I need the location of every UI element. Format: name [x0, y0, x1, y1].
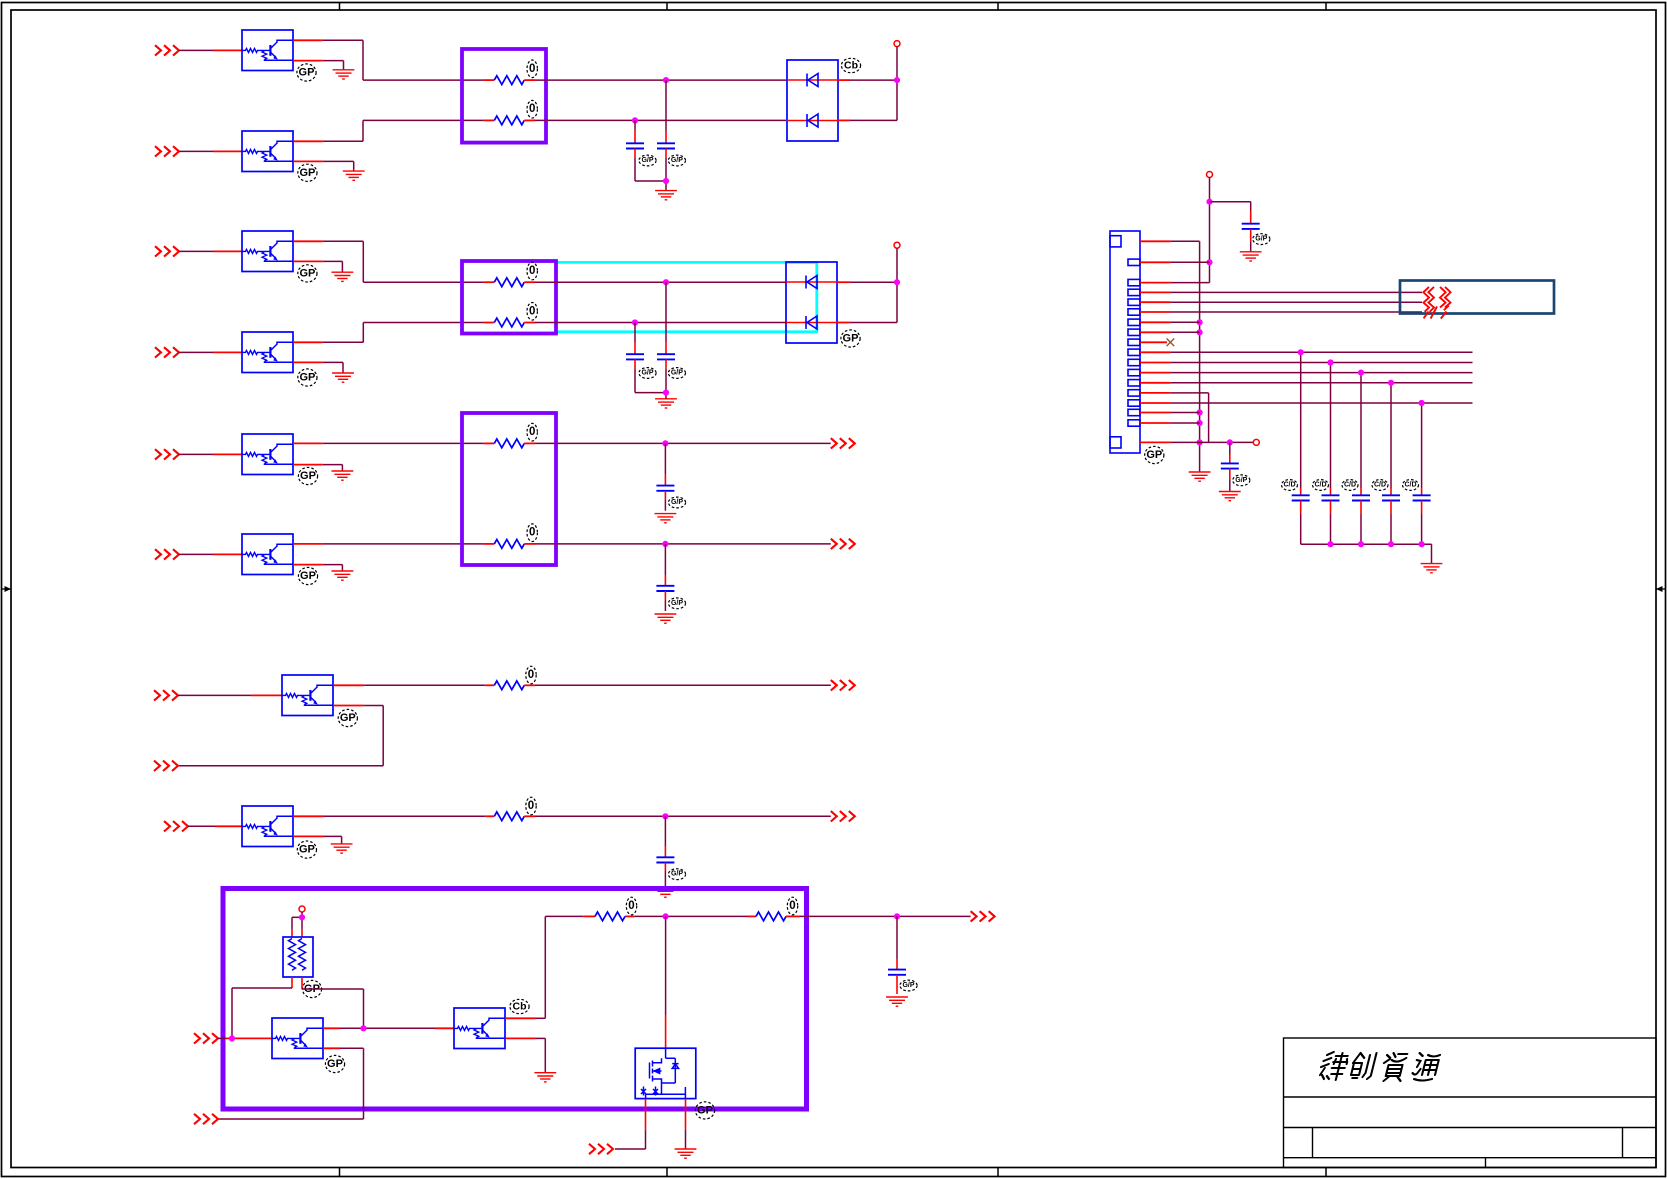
- wire VCC1 to D1 pins: [896, 47, 898, 121]
- transistor Q9: [272, 1018, 323, 1059]
- border mid arrows: [2, 586, 1666, 592]
- node junction at Q9 base: [229, 1035, 235, 1041]
- svg-text:G/P: G/P: [1235, 477, 1247, 484]
- svg-text:GP: GP: [1146, 449, 1162, 461]
- wire IN10 to Q9 base: [218, 1037, 226, 1039]
- node junction at D1 cathode: [894, 77, 900, 83]
- input port arrow IN9: [164, 821, 188, 831]
- terminal open circle P2: [1253, 439, 1259, 445]
- node junction on net A3: [662, 440, 668, 446]
- mosfet M1 block: [635, 1048, 696, 1099]
- wire Q10 collector up to R3 row: [505, 1017, 536, 1019]
- transistor Q7: [282, 675, 333, 716]
- wire Q10 emitter to ground: [505, 1037, 536, 1039]
- wire pin8 to bus: [1171, 331, 1200, 333]
- node junction cap column x1421: [1419, 400, 1425, 406]
- node junction at Q9 collector: [360, 1025, 366, 1031]
- node junction cap common 1: [663, 178, 669, 184]
- label GP for Q8: [297, 841, 316, 858]
- node junction bus pin18: [1197, 439, 1203, 445]
- resistor pack RP2 box: [462, 261, 556, 334]
- resistor RP1-B: [484, 119, 495, 121]
- node junction on net B3: [662, 541, 668, 547]
- ground at Q5 emitter: [332, 471, 354, 480]
- label GP for Q3: [298, 265, 317, 282]
- ground below C8: [886, 997, 908, 1006]
- input port arrow IN4: [155, 347, 179, 357]
- wire Q1 emitter to ground: [293, 60, 323, 62]
- label GP for Q5: [298, 467, 317, 484]
- transistor Q2: [242, 131, 293, 172]
- output port arrow OUT4: [831, 811, 855, 821]
- transistor Q10: [454, 1008, 505, 1049]
- wire R4 to output OUT5: [800, 915, 971, 917]
- label G/P for C9: [1253, 234, 1270, 245]
- label GP for RP4: [302, 980, 321, 997]
- wire RP3-A to output: [535, 442, 831, 444]
- label 0 for RP1-B: [527, 100, 537, 118]
- wire pin16 to bus: [1171, 412, 1200, 414]
- label G/P for C4: [668, 368, 685, 379]
- svg-text:C/D: C/D: [1283, 482, 1295, 489]
- node junction at D2 cathode: [894, 279, 900, 285]
- node junction bus pin17: [1197, 420, 1203, 426]
- wire Q4 collector to RP2 pin2: [293, 341, 323, 343]
- input port arrow IN3: [155, 246, 179, 256]
- svg-text:0: 0: [529, 426, 535, 438]
- function block box (purple): [223, 889, 807, 1110]
- wire IN5 to Q5 base: [179, 453, 213, 455]
- wire cap common to ground 1: [635, 180, 666, 182]
- label G/P for C1: [639, 155, 656, 166]
- wire VCC4 vertical to pin3: [1209, 178, 1211, 283]
- wire Q1 collector to RP1 pin1: [293, 39, 323, 41]
- resistor RP1-A: [484, 79, 495, 81]
- highlight cyan net box: [556, 262, 818, 331]
- capacitor C4: [665, 282, 667, 342]
- wire R1 to output: [524, 684, 535, 686]
- power terminal VCC4: [1207, 172, 1213, 178]
- output port arrow OUT2: [831, 539, 855, 549]
- svg-text:0: 0: [529, 103, 535, 115]
- wire Q6 collector to RP3 pin2: [293, 543, 323, 545]
- wire pin12 long: [1171, 372, 1473, 374]
- EMI filter FB1 box: [1400, 281, 1554, 314]
- svg-text:Cb: Cb: [844, 60, 858, 72]
- svg-text:GP: GP: [300, 570, 316, 582]
- label GP for Q6: [298, 567, 317, 584]
- svg-text:0: 0: [529, 527, 535, 539]
- label Cb for D1: [841, 58, 860, 72]
- capacitor C3: [634, 323, 636, 343]
- capacitor C8: [896, 916, 898, 959]
- wire RP4 left to Q9 base node: [291, 977, 293, 988]
- label C/D for C15: [1403, 480, 1419, 491]
- svg-text:G/P: G/P: [671, 370, 683, 377]
- node junction on net A2: [663, 279, 669, 285]
- wire RP4 right to Q9 collector node: [301, 977, 303, 989]
- transistor Q1: [242, 30, 293, 71]
- svg-text:Cb: Cb: [513, 1001, 527, 1013]
- transistor Q6: [242, 534, 293, 575]
- ground bus vertical: [1199, 241, 1201, 472]
- ground below C3 C4: [655, 399, 677, 408]
- transistor Q8: [242, 806, 293, 847]
- label G/P for C7: [668, 869, 685, 880]
- capacitor C15: [1413, 495, 1431, 500]
- svg-text:GP: GP: [299, 67, 315, 79]
- resistor R2: [494, 812, 524, 821]
- wire IN2 to Q2 base: [179, 150, 213, 152]
- node junction on net A1: [663, 77, 669, 83]
- ground at Q10 emitter: [534, 1073, 556, 1082]
- svg-text:C/D: C/D: [1344, 482, 1356, 489]
- wire Q5 collector to RP3 pin1: [293, 442, 323, 444]
- transistor Q3: [242, 231, 293, 272]
- wire Q6 emitter to ground: [293, 564, 323, 566]
- wire Q8 collector to R2: [293, 815, 324, 817]
- node junction cap column x1361: [1358, 370, 1364, 376]
- no-connect X on pin9: [1167, 339, 1175, 347]
- input port arrow IN7: [154, 690, 178, 700]
- resistor RP3-B: [484, 543, 495, 545]
- label C/D for C13: [1342, 480, 1358, 491]
- label C/D for C11: [1282, 480, 1298, 491]
- node junction cap common 2: [663, 390, 669, 396]
- svg-text:0: 0: [529, 305, 535, 317]
- wire R2 to output: [524, 815, 535, 817]
- capacitor C11: [1292, 495, 1310, 500]
- svg-text:G/P: G/P: [671, 499, 683, 506]
- ground below C5: [655, 514, 677, 523]
- wire pin2 to VCC4: [1171, 261, 1210, 263]
- ground below C7: [655, 888, 677, 897]
- wire pin1 to bus: [1171, 240, 1200, 242]
- label C/D for C14: [1372, 480, 1388, 491]
- filter caps common rail: [1301, 543, 1432, 545]
- label G/P for C2: [668, 155, 685, 166]
- wire Q9 collector to Q10 base: [323, 1027, 340, 1029]
- capacitor C14: [1382, 495, 1400, 500]
- output port arrow OUT5: [971, 911, 995, 921]
- ground below C1 C2: [655, 191, 677, 200]
- label G/P for C5: [668, 497, 685, 508]
- wire Q2 collector to RP1 pin2: [293, 140, 323, 142]
- capacitor C9: [1242, 224, 1260, 229]
- wire IN6 to Q6 base: [179, 553, 213, 555]
- output port arrow OUT3: [831, 680, 855, 690]
- wire Q2 emitter to ground: [293, 160, 323, 162]
- five filter capacitors group wires: [1300, 352, 1302, 488]
- connector J1 pin stubs: [1140, 241, 1171, 442]
- wire VCC4 branch to C9: [1210, 201, 1251, 203]
- label Cb for Q10: [510, 999, 529, 1013]
- capacitor C2: [665, 80, 667, 131]
- resistor pack RP1 box: [462, 49, 546, 143]
- wire pin10 long: [1171, 351, 1473, 353]
- capacitor C12: [1322, 495, 1340, 500]
- node junction rail: [1358, 541, 1364, 547]
- svg-text:0: 0: [529, 63, 535, 75]
- svg-text:C/D: C/D: [1374, 482, 1386, 489]
- wire Q7 collector to R1: [333, 684, 364, 686]
- input port arrow IN5: [155, 449, 179, 459]
- resistor R4: [747, 915, 756, 917]
- ground below M1: [675, 1149, 697, 1158]
- node junction rail: [1388, 541, 1394, 547]
- wire Q7 emitter to IN8: [333, 705, 364, 707]
- node junction below VCC3: [299, 914, 305, 920]
- label GP for D2: [841, 330, 860, 347]
- wire Q5 emitter to ground: [293, 464, 323, 466]
- capacitor C7: [664, 816, 666, 846]
- resistor pack RP3 box: [462, 413, 556, 565]
- dual diode D2: [786, 262, 837, 343]
- wire pin6 to filter FB1: [1171, 311, 1422, 313]
- wire pin11 long: [1171, 362, 1473, 364]
- ground at Q1 emitter: [333, 70, 355, 79]
- border zone ticks: [340, 3, 1327, 1177]
- power terminal VCC1: [894, 41, 900, 47]
- wire pin14 to pin18 net: [1171, 392, 1209, 394]
- wire RP3-B to output: [535, 543, 831, 545]
- svg-text:G/P: G/P: [671, 157, 683, 164]
- power terminal VCC3: [299, 906, 305, 912]
- wire Q4 emitter to ground: [293, 361, 323, 363]
- capacitor C5: [664, 443, 666, 474]
- label GP for Q7: [338, 709, 357, 726]
- label 0 for R3: [626, 897, 636, 915]
- wire pin3 to VCC4: [1171, 282, 1210, 284]
- transistor Q5: [242, 434, 293, 475]
- output port arrow OUT1: [831, 438, 855, 448]
- svg-text:0: 0: [628, 900, 634, 912]
- wire M1 pin to ground: [685, 1099, 687, 1130]
- svg-text:0: 0: [528, 669, 534, 681]
- svg-text:G/P: G/P: [1255, 236, 1267, 243]
- label GP for J1: [1145, 446, 1164, 463]
- label G/P for C3: [639, 368, 656, 379]
- wire pin18 to terminal: [1171, 441, 1254, 443]
- connector J1 body: [1110, 231, 1140, 453]
- node junction bus pin7: [1197, 319, 1203, 325]
- node junction bus pin16: [1197, 409, 1203, 415]
- wire RP2-B to diode D2 lower: [535, 322, 786, 324]
- wire pin4 to filter FB1: [1171, 291, 1422, 293]
- label G/P for C6: [668, 598, 685, 609]
- wire RP1-A to diode D1 upper: [535, 79, 787, 81]
- label 0 for RP2-B: [527, 303, 537, 321]
- svg-text:GP: GP: [299, 844, 315, 856]
- label GP for Q4: [298, 369, 317, 386]
- wire IN4 to Q4 base: [179, 351, 213, 353]
- input port arrow IN2: [155, 146, 179, 156]
- label 0 for R4: [787, 897, 797, 915]
- svg-text:G/P: G/P: [641, 157, 653, 164]
- resistor RP3-A: [484, 442, 495, 444]
- node junction rail: [1419, 541, 1425, 547]
- resistor pack RP4 (vertical pair): [283, 937, 313, 977]
- wire IN3 to Q3 base: [179, 250, 213, 252]
- svg-text:GP: GP: [697, 1104, 713, 1116]
- wire pin5 to filter FB1: [1171, 301, 1422, 303]
- svg-text:GP: GP: [300, 470, 316, 482]
- capacitor C6: [664, 544, 666, 575]
- wire Q3 emitter to ground: [293, 260, 323, 262]
- resistor RP2-A: [483, 281, 494, 283]
- wire Q3 collector to RP2 pin1: [293, 240, 323, 242]
- node junction bus pin8: [1197, 329, 1203, 335]
- label G/P for C10: [1233, 475, 1250, 486]
- wire R3 to R4: [634, 915, 747, 917]
- svg-text:GP: GP: [843, 333, 859, 345]
- svg-text:G/P: G/P: [641, 370, 653, 377]
- EMI filter FB1 element symbols: [1423, 287, 1450, 319]
- label GP for Q2: [298, 164, 317, 181]
- ground at Q4 emitter: [332, 373, 354, 382]
- wire pin13 long: [1171, 382, 1473, 384]
- resistor R1: [494, 681, 524, 690]
- ground below filter caps: [1421, 564, 1443, 573]
- ground below C10: [1219, 492, 1241, 501]
- node junction on net A5: [662, 813, 668, 819]
- svg-text:0: 0: [528, 800, 534, 812]
- input port arrow IN6: [155, 549, 179, 559]
- title block: [1284, 1038, 1657, 1168]
- input port arrow IN10: [194, 1033, 218, 1043]
- label GP for M1: [695, 1102, 714, 1119]
- wire RP1-B to diode D1 lower: [535, 119, 786, 121]
- svg-text:G/P: G/P: [902, 982, 914, 989]
- label 0 for RP1-A: [527, 60, 537, 78]
- label 0 for RP3-B: [527, 524, 537, 542]
- svg-text:0: 0: [529, 265, 535, 277]
- svg-text:GP: GP: [299, 167, 315, 179]
- wire Q8 emitter to ground: [293, 835, 324, 837]
- label C/D for C12: [1313, 480, 1329, 491]
- svg-text:G/P: G/P: [671, 871, 683, 878]
- svg-text:0: 0: [789, 900, 795, 912]
- input port arrow IN11: [194, 1114, 218, 1124]
- wire IN7 to Q7 base: [178, 694, 251, 696]
- wire cap common to ground 2: [635, 392, 666, 394]
- wire pin15 long: [1171, 402, 1473, 404]
- wire VCC2 to D2 pins: [896, 248, 898, 322]
- node junction cap column x1300: [1298, 349, 1304, 355]
- title text Wistron (hand-drawn CJK strokes): [1318, 1052, 1441, 1081]
- ground below bus: [1189, 472, 1211, 481]
- ground at Q2 emitter: [343, 171, 365, 180]
- ground at Q3 emitter: [332, 272, 354, 281]
- node junction on net B1: [632, 117, 638, 123]
- svg-text:GP: GP: [340, 712, 356, 724]
- ground at Q8 emitter: [331, 844, 353, 853]
- ground below C9: [1240, 252, 1262, 261]
- label 0 for RP3-A: [527, 423, 537, 441]
- svg-text:GP: GP: [299, 267, 315, 279]
- wire M1 source pin to IN12: [645, 1099, 647, 1130]
- svg-text:C/D: C/D: [1314, 482, 1326, 489]
- wire gate net down to M1: [665, 916, 667, 1015]
- node junction on net B2: [632, 319, 638, 325]
- node junction cap column x1330: [1327, 359, 1333, 365]
- resistor R3: [583, 915, 595, 917]
- capacitor C13: [1352, 495, 1370, 500]
- node junction cap column x1391: [1388, 380, 1394, 386]
- wire IN1 to Q1 base: [179, 49, 213, 51]
- svg-text:G/P: G/P: [671, 600, 683, 607]
- label 0 for R2: [526, 797, 536, 815]
- resistor RP2-B: [483, 322, 494, 324]
- svg-text:C/D: C/D: [1404, 482, 1416, 489]
- input port arrow IN8: [154, 761, 178, 771]
- capacitor C10: [1229, 442, 1231, 454]
- wire IN9 to Q8 base: [188, 825, 215, 827]
- ground at Q6 emitter: [332, 571, 354, 580]
- node junction rail: [1327, 541, 1333, 547]
- wire RP2-A to diode D2 upper: [535, 281, 786, 283]
- wire pin17 to bus: [1171, 422, 1200, 424]
- svg-text:GP: GP: [299, 372, 315, 384]
- wire Q9 emitter to IN11: [323, 1047, 340, 1049]
- input port arrow IN12: [589, 1144, 613, 1154]
- wire pin7 to bus: [1171, 321, 1200, 323]
- node junction VCC4 branch: [1206, 199, 1212, 205]
- ground below C6: [655, 614, 677, 623]
- label 0 for R1: [526, 666, 536, 684]
- label 0 for RP2-A: [527, 262, 537, 280]
- wire VCC3 to resistor pack RP4: [301, 912, 303, 917]
- label GP for Q1: [297, 64, 316, 81]
- label G/P for C8: [900, 980, 917, 991]
- input port arrow IN1: [155, 45, 179, 55]
- dual diode D1: [787, 60, 838, 141]
- node junction VCC4 pin2: [1206, 259, 1212, 265]
- node junction at gate net: [663, 913, 669, 919]
- capacitor C1: [634, 120, 636, 129]
- node junction pin18 cap branch: [1227, 439, 1233, 445]
- svg-text:GP: GP: [327, 1058, 343, 1070]
- node junction before C8: [894, 913, 900, 919]
- label GP for Q9: [325, 1055, 344, 1072]
- power terminal VCC2: [894, 242, 900, 248]
- transistor Q4: [242, 332, 293, 373]
